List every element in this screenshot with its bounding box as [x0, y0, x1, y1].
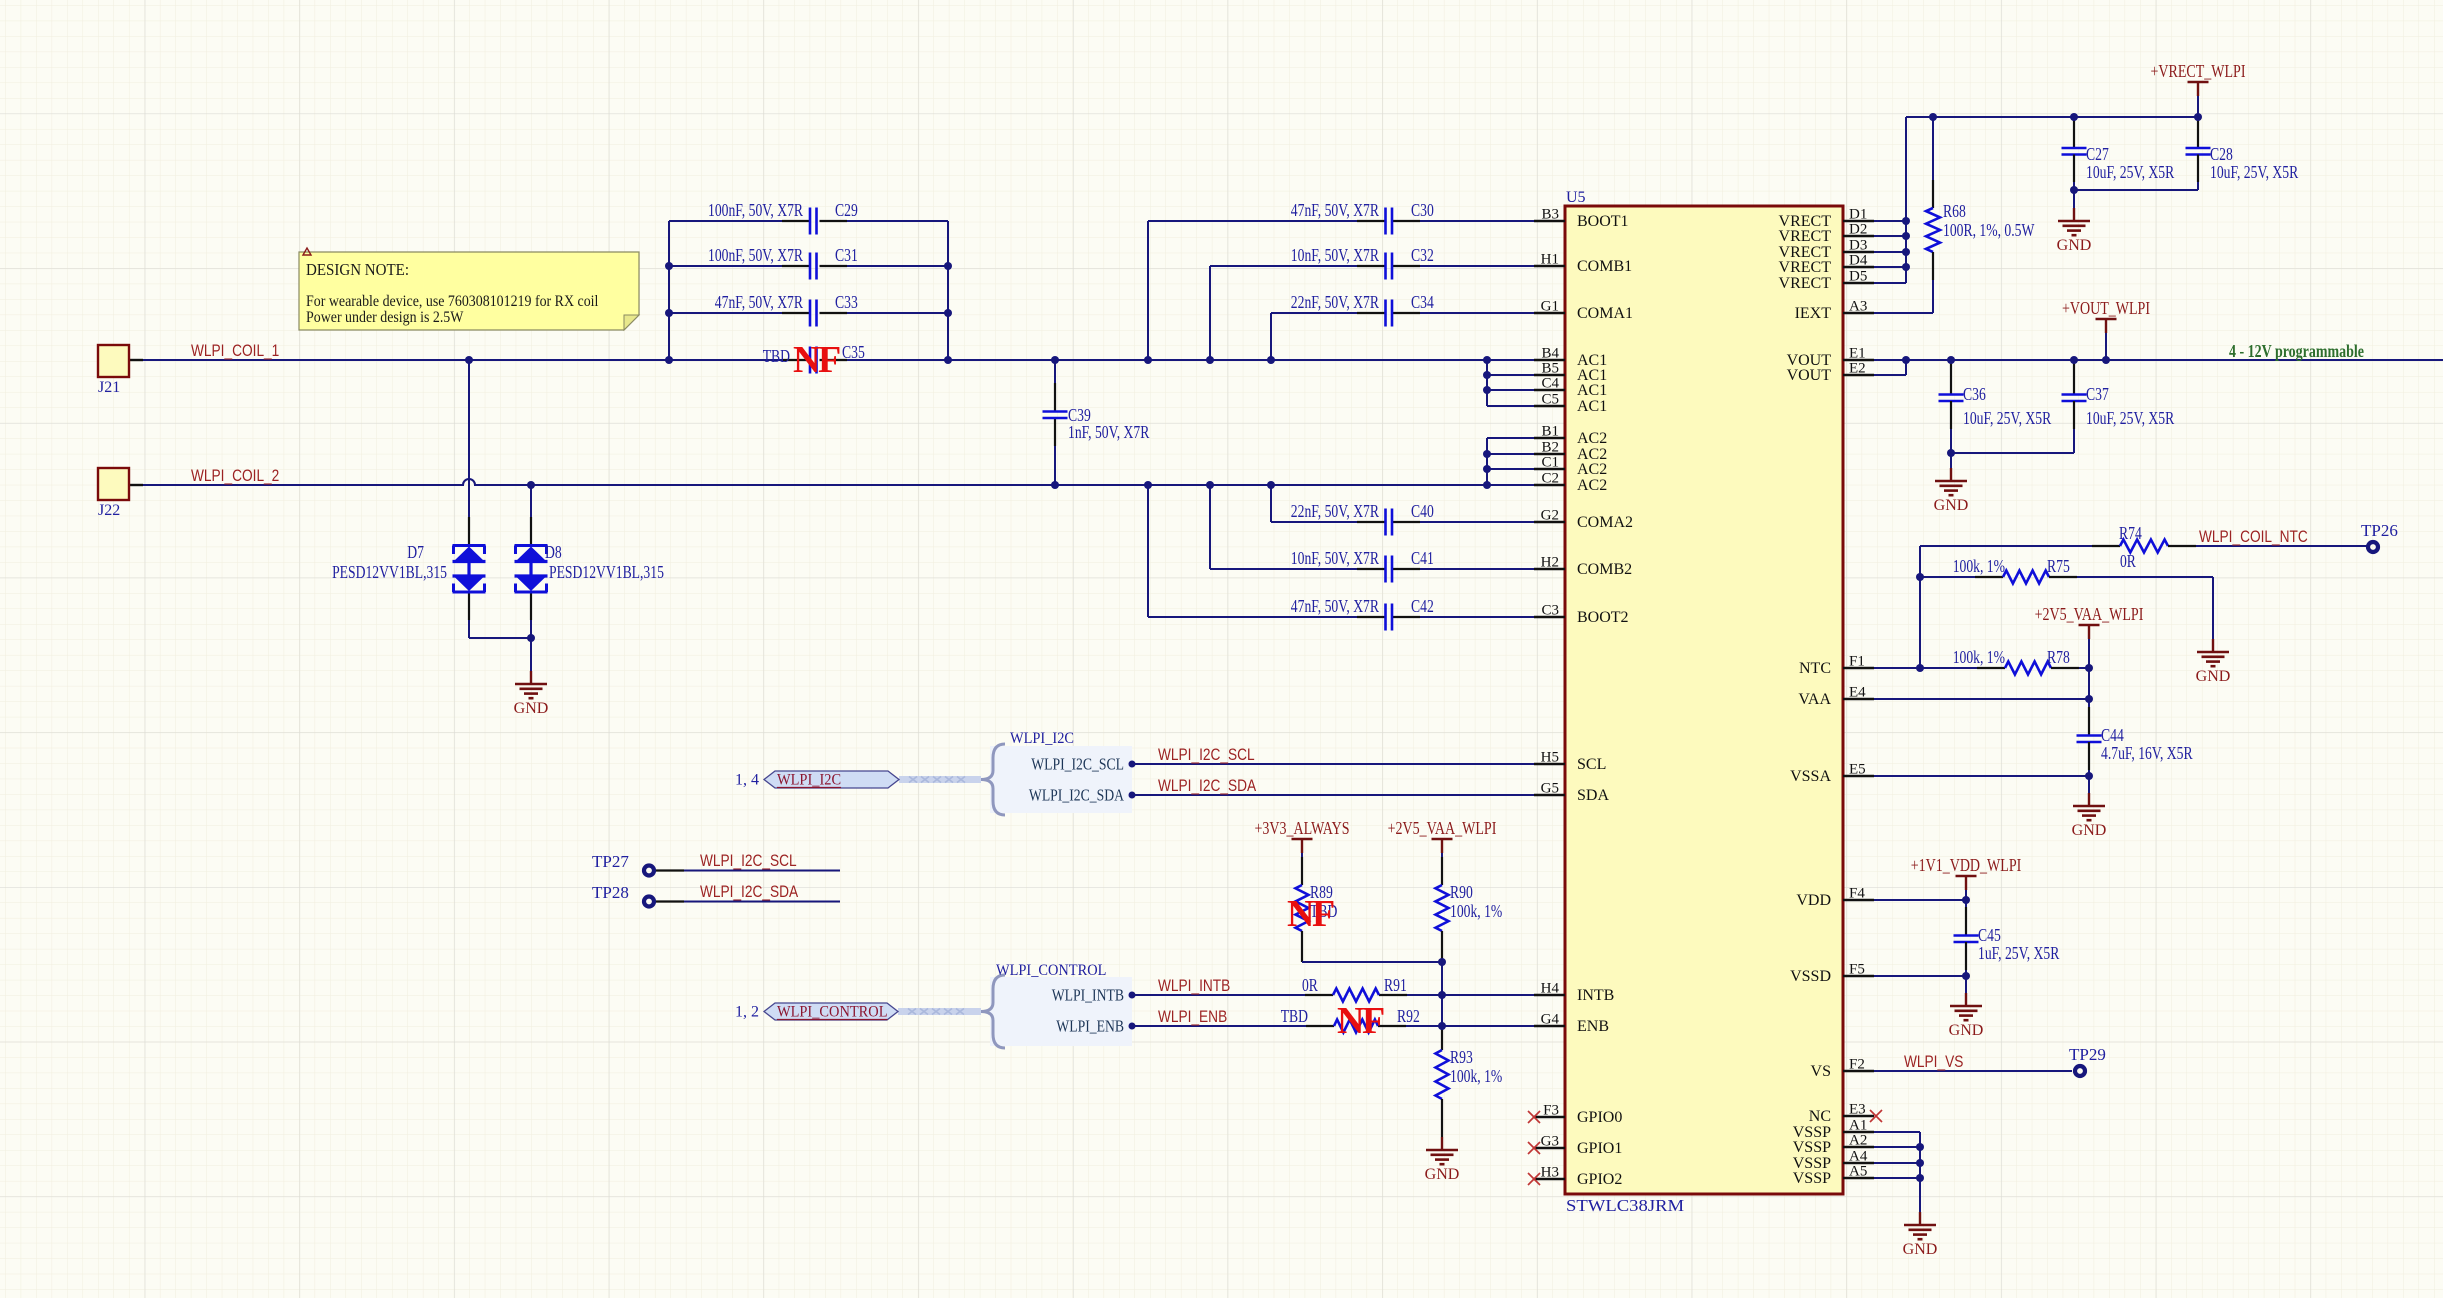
resistor R75	[1920, 556, 2213, 584]
svg-text:+2V5_VAA_WLPI: +2V5_VAA_WLPI	[1388, 818, 1497, 838]
wire WLPI_COIL_1 / AC1 main	[129, 359, 1534, 361]
svg-text:WLPI_COIL_NTC: WLPI_COIL_NTC	[2199, 528, 2308, 546]
svg-text:C3: C3	[1541, 603, 1559, 619]
svg-text:SDA: SDA	[1577, 787, 1609, 804]
svg-text:22nF, 50V, X7R: 22nF, 50V, X7R	[1291, 292, 1379, 312]
wire WLPI_COIL_2 / AC2 main (hop at x=469)	[129, 479, 1534, 485]
svg-text:TBD: TBD	[763, 346, 790, 366]
svg-text:For wearable device, use 76030: For wearable device, use 760308101219 fo…	[306, 293, 599, 310]
pin E4 VAA (right)	[1798, 685, 1874, 709]
ground under C27	[2073, 190, 2075, 208]
capacitor C29	[669, 200, 948, 235]
svg-text:NF: NF	[793, 339, 840, 381]
svg-text:1, 4: 1, 4	[735, 772, 759, 789]
junction dots NTC	[1916, 573, 2093, 780]
testpoint TP26	[2361, 521, 2398, 552]
svg-text:VSSA: VSSA	[1790, 768, 1831, 785]
harness brace WLPI_I2C	[981, 744, 1005, 815]
capacitor C36	[1939, 360, 2052, 453]
svg-text:BOOT1: BOOT1	[1577, 213, 1629, 230]
svg-text:TP28: TP28	[592, 883, 629, 902]
svg-text:+2V5_VAA_WLPI: +2V5_VAA_WLPI	[2035, 604, 2144, 624]
ground under C36	[1950, 453, 1952, 468]
svg-text:GND: GND	[2072, 822, 2107, 839]
svg-text:WLPI_ENB: WLPI_ENB	[1158, 1008, 1227, 1026]
svg-text:VOUT: VOUT	[1787, 367, 1832, 384]
svg-text:47nF, 50V, X7R: 47nF, 50V, X7R	[1291, 596, 1379, 616]
svg-text:E4: E4	[1849, 685, 1866, 701]
svg-text:R90: R90	[1450, 882, 1473, 902]
svg-text:100R, 1%, 0.5W: 100R, 1%, 0.5W	[1943, 220, 2035, 240]
svg-text:H4: H4	[1541, 981, 1560, 997]
svg-text:BOOT2: BOOT2	[1577, 609, 1629, 626]
capacitor C35 (NF) in series on AC1 wire	[763, 342, 865, 374]
pin C4 AC1 (left)	[1534, 376, 1607, 400]
svg-text:D2: D2	[1849, 222, 1867, 238]
svg-text:VAA: VAA	[1798, 691, 1831, 708]
svg-text:AC2: AC2	[1577, 461, 1607, 478]
svg-text:PESD12VV1BL,315: PESD12VV1BL,315	[549, 562, 664, 582]
wire IEXT to R68	[1874, 312, 1933, 314]
svg-text:D3: D3	[1849, 238, 1867, 254]
svg-text:C37: C37	[2086, 384, 2109, 404]
pin C5 AC1 (left)	[1534, 392, 1607, 416]
svg-text:TP29: TP29	[2069, 1045, 2106, 1064]
wire F5 stub	[1874, 975, 1966, 977]
wire AC2 pin tie bus	[1487, 438, 1534, 485]
svg-text:+VRECT_WLPI: +VRECT_WLPI	[2151, 61, 2246, 81]
svg-text:10nF, 50V, X7R: 10nF, 50V, X7R	[1291, 548, 1379, 568]
svg-text:C29: C29	[835, 200, 858, 220]
pin B2 AC2 (left)	[1534, 440, 1607, 464]
wire C36/C37 bottoms	[1951, 452, 2074, 454]
ground under C44	[2088, 776, 2090, 793]
resistor R74	[1920, 523, 2368, 571]
pin G5 SDA (left)	[1534, 781, 1609, 805]
svg-text:H3: H3	[1541, 1165, 1559, 1181]
svg-text:10nF, 50V, X7R: 10nF, 50V, X7R	[1291, 245, 1379, 265]
svg-text:PESD12VV1BL,315: PESD12VV1BL,315	[332, 562, 447, 582]
svg-text:GND: GND	[514, 700, 549, 717]
svg-text:WLPI_I2C_SCL: WLPI_I2C_SCL	[700, 852, 797, 870]
wire D8 branch vertical	[530, 485, 532, 545]
pin A1 VSSP (right)	[1793, 1118, 1874, 1142]
capacitor C45	[1954, 900, 2060, 976]
no-connect E3	[1870, 1110, 1882, 1122]
svg-text:H1: H1	[1541, 252, 1559, 268]
wire VSSP tie bus	[1874, 1132, 1920, 1212]
power +VOUT_WLPI	[2096, 318, 2117, 321]
svg-text:WLPI_I2C_SCL: WLPI_I2C_SCL	[1158, 746, 1255, 764]
svg-text:TP27: TP27	[592, 852, 629, 871]
svg-text:10uF, 25V, X5R: 10uF, 25V, X5R	[1963, 408, 2051, 428]
junction dots VOUT	[1902, 356, 2110, 457]
svg-text:VRECT: VRECT	[1779, 275, 1832, 292]
svg-text:47nF, 50V, X7R: 47nF, 50V, X7R	[715, 292, 803, 312]
capacitor C28	[2186, 117, 2299, 190]
pin H4 INTB (left)	[1534, 981, 1614, 1005]
svg-text:TBD: TBD	[1281, 1006, 1308, 1026]
svg-text:J21: J21	[98, 379, 120, 396]
svg-text:R75: R75	[2047, 556, 2070, 576]
svg-text:WLPI_VS: WLPI_VS	[1904, 1053, 1964, 1071]
ground under R93	[1441, 1136, 1443, 1138]
resistor R90	[1436, 882, 1503, 1026]
svg-text:AC2: AC2	[1577, 477, 1607, 494]
svg-text:COMA1: COMA1	[1577, 305, 1633, 322]
svg-text:100nF, 50V, X7R: 100nF, 50V, X7R	[708, 245, 803, 265]
svg-text:+3V3_ALWAYS: +3V3_ALWAYS	[1255, 818, 1350, 838]
wire TP27 WLPI_I2C_SCL	[656, 852, 840, 871]
pin B1 AC2 (left)	[1534, 424, 1607, 448]
capacitor C27	[2062, 117, 2175, 190]
pin E2 VOUT (right)	[1787, 361, 1874, 385]
capacitor C30	[1148, 200, 1534, 360]
junction dots VRECT	[1902, 113, 2202, 271]
svg-text:100k, 1%: 100k, 1%	[1450, 1066, 1502, 1086]
svg-text:F4: F4	[1849, 886, 1865, 902]
svg-text:VS: VS	[1811, 1063, 1831, 1080]
svg-text:WLPI_I2C: WLPI_I2C	[777, 772, 841, 789]
svg-text:B4: B4	[1541, 346, 1559, 362]
svg-text:STWLC38JRM: STWLC38JRM	[1566, 1196, 1684, 1215]
svg-text:B2: B2	[1541, 440, 1559, 456]
svg-text:VSSD: VSSD	[1790, 968, 1831, 985]
svg-text:WLPI_I2C_SDA: WLPI_I2C_SDA	[1029, 786, 1124, 805]
svg-text:C40: C40	[1411, 501, 1434, 521]
svg-text:D8: D8	[545, 542, 562, 562]
no-connect GPIO pins	[1528, 1111, 1540, 1185]
svg-text:R91: R91	[1384, 975, 1407, 995]
junction dots (left nets)	[465, 262, 1491, 642]
svg-text:C42: C42	[1411, 596, 1434, 616]
diode D7 PESD12VV1BL	[332, 542, 485, 592]
wire F1 stub to R78	[1874, 667, 1977, 669]
svg-text:C41: C41	[1411, 548, 1434, 568]
svg-text:VSSP: VSSP	[1793, 1139, 1831, 1156]
svg-text:R68: R68	[1943, 201, 1966, 221]
pin F2 VS (right)	[1811, 1057, 1874, 1081]
harness brace WLPI_CONTROL	[981, 975, 1005, 1048]
svg-text:A1: A1	[1849, 1118, 1867, 1134]
svg-text:F3: F3	[1543, 1103, 1559, 1119]
svg-text:C45: C45	[1978, 925, 2001, 945]
svg-text:ENB: ENB	[1577, 1018, 1609, 1035]
svg-text:0R: 0R	[1302, 975, 1318, 995]
svg-text:C34: C34	[1411, 292, 1434, 312]
ground under D7/D8	[530, 638, 532, 671]
capacitor C40	[1271, 485, 1534, 536]
wire VAA node vertical	[2088, 668, 2090, 735]
design note	[299, 248, 639, 330]
pin G4 ENB (left)	[1534, 1012, 1609, 1036]
svg-text:1uF, 25V, X5R: 1uF, 25V, X5R	[1978, 943, 2060, 963]
pin G1 COMA1 (left)	[1534, 299, 1633, 323]
svg-text:G3: G3	[1541, 1134, 1559, 1150]
svg-text:100k, 1%: 100k, 1%	[1450, 901, 1502, 921]
capacitor C31	[669, 245, 948, 280]
svg-text:C2: C2	[1541, 471, 1559, 487]
svg-text:4.7uF, 16V, X5R: 4.7uF, 16V, X5R	[2101, 743, 2193, 763]
ground under C45	[1965, 976, 1967, 993]
pin F1 NTC (right)	[1799, 654, 1874, 678]
junction dots VDD	[1962, 896, 1970, 980]
junction dots control	[1129, 958, 1447, 1030]
wire R75 to GND	[2212, 577, 2214, 639]
wire D7 branch vertical	[468, 360, 470, 545]
svg-text:D7: D7	[407, 542, 424, 562]
resistor R78	[1953, 647, 2089, 675]
capacitor C41	[1210, 485, 1534, 583]
svg-text:TP26: TP26	[2361, 521, 2398, 540]
svg-text:G4: G4	[1541, 1012, 1560, 1028]
svg-text:NTC: NTC	[1799, 660, 1831, 677]
svg-text:G2: G2	[1541, 508, 1559, 524]
svg-text:WLPI_COIL_1: WLPI_COIL_1	[191, 342, 279, 360]
wire E4 stub	[1874, 698, 2089, 700]
svg-text:1nF, 50V, X7R: 1nF, 50V, X7R	[1068, 422, 1150, 442]
svg-text:WLPI_CONTROL: WLPI_CONTROL	[777, 1004, 888, 1021]
pin E1 VOUT (right)	[1787, 346, 1874, 370]
wire WLPI_INTB	[1132, 994, 1534, 996]
svg-text:C33: C33	[835, 292, 858, 312]
svg-text:A3: A3	[1849, 299, 1867, 315]
svg-text:H2: H2	[1541, 555, 1559, 571]
wire NTC node vertical	[1919, 546, 1921, 668]
svg-text:AC2: AC2	[1577, 430, 1607, 447]
svg-text:GND: GND	[1903, 1241, 1938, 1258]
svg-text:E5: E5	[1849, 762, 1866, 778]
svg-text:WLPI_I2C_SDA: WLPI_I2C_SDA	[1158, 777, 1256, 795]
svg-text:AC1: AC1	[1577, 382, 1607, 399]
svg-text:100nF, 50V, X7R: 100nF, 50V, X7R	[708, 200, 803, 220]
svg-text:A5: A5	[1849, 1164, 1867, 1180]
pin D2 VRECT (right)	[1779, 222, 1874, 246]
capacitor C44	[2077, 725, 2193, 776]
svg-text:C28: C28	[2210, 144, 2233, 164]
svg-text:H5: H5	[1541, 750, 1559, 766]
svg-text:22nF, 50V, X7R: 22nF, 50V, X7R	[1291, 501, 1379, 521]
svg-text:J22: J22	[98, 502, 120, 519]
svg-text:C32: C32	[1411, 245, 1434, 265]
svg-text:WLPI_I2C_SDA: WLPI_I2C_SDA	[700, 883, 798, 901]
svg-text:WLPI_ENB: WLPI_ENB	[1056, 1017, 1124, 1036]
wire WLPI_ENB	[1132, 1025, 1534, 1027]
svg-text:GPIO1: GPIO1	[1577, 1140, 1622, 1157]
pin H5 SCL (left)	[1534, 750, 1606, 774]
svg-text:0R: 0R	[2120, 551, 2136, 571]
svg-text:NF: NF	[1337, 1000, 1384, 1042]
svg-text:F5: F5	[1849, 962, 1865, 978]
svg-text:D4: D4	[1849, 253, 1868, 269]
capacitor C32	[1210, 245, 1534, 360]
svg-text:WLPI_INTB: WLPI_INTB	[1158, 977, 1230, 995]
resistor R91	[1302, 975, 1407, 1002]
pin F4 VDD (right)	[1796, 886, 1874, 910]
harness tag WLPI_CONTROL	[764, 1003, 898, 1020]
resistor R93	[1436, 1026, 1503, 1137]
pin E5 VSSA (right)	[1790, 762, 1874, 786]
svg-text:E1: E1	[1849, 346, 1866, 362]
wire C27/C28 bottoms	[2074, 189, 2198, 191]
pin B3 BOOT1 (left)	[1534, 207, 1629, 231]
svg-text:VSSP: VSSP	[1793, 1170, 1831, 1187]
svg-text:INTB: INTB	[1577, 987, 1614, 1004]
svg-text:C5: C5	[1541, 392, 1559, 408]
wire WLPI_I2C_SCL	[1132, 763, 1534, 765]
wire WLPI_VS	[1874, 1070, 2072, 1072]
svg-text:SCL: SCL	[1577, 756, 1606, 773]
svg-text:10uF, 25V, X5R: 10uF, 25V, X5R	[2086, 162, 2174, 182]
wire WLPI_I2C_SDA	[1132, 794, 1534, 796]
pin D3 VRECT (right)	[1779, 238, 1874, 262]
pin G2 COMA2 (left)	[1534, 508, 1633, 532]
wire TP28 WLPI_I2C_SDA	[656, 883, 840, 902]
svg-text:GND: GND	[2057, 237, 2092, 254]
diode D8 PESD12VV1BL	[515, 542, 665, 592]
wire left cap bank bus right	[947, 221, 949, 360]
svg-text:VDD: VDD	[1796, 892, 1831, 909]
svg-text:WLPI_I2C_SCL: WLPI_I2C_SCL	[1031, 755, 1124, 774]
testpoint TP27	[592, 852, 654, 876]
harness panel WLPI_CONTROL	[990, 977, 1132, 1046]
svg-text:G1: G1	[1541, 299, 1559, 315]
svg-text:WLPI_I2C: WLPI_I2C	[1010, 730, 1074, 747]
svg-text:D1: D1	[1849, 207, 1867, 223]
svg-text:B3: B3	[1541, 207, 1559, 223]
svg-text:C35: C35	[842, 342, 865, 362]
svg-text:GND: GND	[1934, 497, 1969, 514]
pin C2 AC2 (left)	[1534, 471, 1607, 495]
svg-text:GPIO2: GPIO2	[1577, 1171, 1622, 1188]
IC U5 STWLC38JRM body	[1565, 189, 1843, 1215]
pin G3 GPIO1 (left)	[1534, 1134, 1622, 1158]
wire diode bottoms to GND	[469, 592, 531, 638]
svg-text:100k, 1%: 100k, 1%	[1953, 556, 2005, 576]
junction dots VSSP	[1916, 1143, 1924, 1182]
svg-text:C1: C1	[1541, 455, 1559, 471]
svg-text:COMA2: COMA2	[1577, 514, 1633, 531]
svg-text:D5: D5	[1849, 269, 1867, 285]
power +2V5_VAA_WLPI (mid)	[1432, 838, 1453, 841]
svg-text:U5: U5	[1566, 189, 1586, 206]
svg-text:10uF, 25V, X5R: 10uF, 25V, X5R	[2210, 162, 2298, 182]
resistor R92 (NF)	[1281, 1006, 1420, 1033]
svg-text:10uF, 25V, X5R: 10uF, 25V, X5R	[2086, 408, 2174, 428]
svg-text:A4: A4	[1849, 1149, 1868, 1165]
ground under R75	[2212, 638, 2214, 640]
testpoint TP28	[592, 883, 654, 907]
pin E3 NC (right)	[1809, 1102, 1874, 1126]
wire E5 stub	[1874, 775, 2089, 777]
svg-text:C30: C30	[1411, 200, 1434, 220]
capacitor C33	[669, 292, 948, 327]
pin A4 VSSP (right)	[1793, 1149, 1874, 1173]
svg-text:F1: F1	[1849, 654, 1865, 670]
power +VRECT_WLPI	[2188, 81, 2209, 84]
capacitor C34	[1271, 292, 1534, 360]
svg-text:NF: NF	[1287, 893, 1334, 935]
svg-text:IEXT: IEXT	[1795, 305, 1832, 322]
harness panel WLPI_I2C	[990, 746, 1132, 813]
wire left cap bank bus left	[668, 221, 670, 360]
svg-text:GND: GND	[1425, 1166, 1460, 1183]
svg-text:R93: R93	[1450, 1047, 1473, 1067]
svg-text:VRECT: VRECT	[1779, 228, 1832, 245]
svg-text:NC: NC	[1809, 1108, 1831, 1125]
wire VRECT top rail	[1874, 117, 2198, 283]
svg-text:WLPI_CONTROL: WLPI_CONTROL	[996, 962, 1106, 979]
pin A3 IEXT (right)	[1795, 299, 1874, 323]
pin D4 VRECT (right)	[1779, 253, 1874, 277]
svg-text:VRECT: VRECT	[1779, 259, 1832, 276]
svg-text:GND: GND	[2196, 668, 2231, 685]
svg-text:B1: B1	[1541, 424, 1559, 440]
svg-text:B5: B5	[1541, 361, 1559, 377]
harness tag WLPI_I2C	[764, 771, 899, 788]
svg-text:C27: C27	[2086, 144, 2109, 164]
capacitor C37	[2062, 360, 2175, 453]
resistor R89 (NF)	[1296, 882, 1338, 962]
wire AC1 pin tie bus	[1487, 360, 1534, 406]
pin B5 AC1 (left)	[1534, 361, 1607, 385]
connector J21	[98, 345, 129, 396]
harness cable WLPI_CONTROL	[898, 1008, 981, 1015]
svg-text:E3: E3	[1849, 1102, 1866, 1118]
svg-text:1, 2: 1, 2	[735, 1004, 759, 1021]
svg-text:WLPI_COIL_2: WLPI_COIL_2	[191, 467, 279, 485]
ground under VSSP	[1919, 1211, 1921, 1213]
svg-text:GND: GND	[1949, 1022, 1984, 1039]
svg-text:C31: C31	[835, 245, 858, 265]
pin F3 GPIO0 (left)	[1534, 1103, 1622, 1127]
pin F5 VSSD (right)	[1790, 962, 1874, 986]
pin C3 BOOT2 (left)	[1534, 603, 1629, 627]
wire R89 bottom to R90	[1302, 961, 1442, 963]
svg-text:G5: G5	[1541, 781, 1559, 797]
svg-text:+1V1_VDD_WLPI: +1V1_VDD_WLPI	[1911, 855, 2022, 875]
svg-text:R74: R74	[2119, 523, 2142, 543]
svg-text:4 - 12V programmable: 4 - 12V programmable	[2229, 341, 2364, 361]
svg-text:WLPI_INTB: WLPI_INTB	[1052, 986, 1124, 1005]
svg-text:E2: E2	[1849, 361, 1866, 377]
power +2V5_VAA_WLPI (right)	[2079, 624, 2100, 627]
svg-text:C44: C44	[2101, 725, 2124, 745]
svg-text:AC1: AC1	[1577, 398, 1607, 415]
capacitor C39	[1043, 360, 1150, 485]
svg-text:+VOUT_WLPI: +VOUT_WLPI	[2062, 298, 2150, 318]
svg-text:COMB2: COMB2	[1577, 561, 1632, 578]
harness cable WLPI_I2C	[899, 776, 981, 783]
pin C1 AC2 (left)	[1534, 455, 1607, 479]
svg-text:R78: R78	[2047, 647, 2070, 667]
svg-text:GPIO0: GPIO0	[1577, 1109, 1622, 1126]
wire F4 stub	[1874, 899, 1966, 901]
pin D1 VRECT (right)	[1779, 207, 1874, 231]
pin H2 COMB2 (left)	[1534, 555, 1632, 579]
testpoint TP29	[2069, 1045, 2106, 1076]
svg-text:47nF, 50V, X7R: 47nF, 50V, X7R	[1291, 200, 1379, 220]
svg-text:R92: R92	[1397, 1006, 1420, 1026]
pin A5 VSSP (right)	[1793, 1164, 1874, 1188]
pin A2 VSSP (right)	[1793, 1133, 1874, 1157]
pin H1 COMB1 (left)	[1534, 252, 1632, 276]
svg-text:F2: F2	[1849, 1057, 1865, 1073]
power +1V1_VDD_WLPI	[1956, 875, 1977, 878]
svg-text:100k, 1%: 100k, 1%	[1953, 647, 2005, 667]
svg-text:DESIGN NOTE:: DESIGN NOTE:	[306, 260, 409, 279]
svg-text:C36: C36	[1963, 384, 1986, 404]
